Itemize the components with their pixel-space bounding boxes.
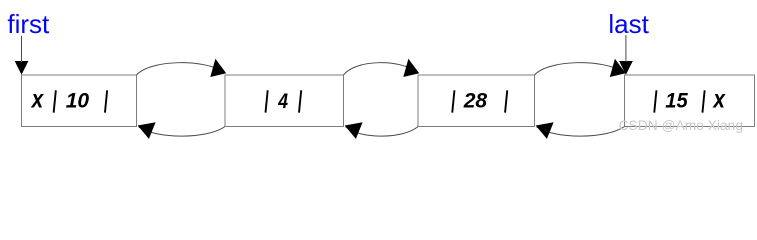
svg-text:first: first <box>7 9 50 39</box>
svg-text:CSDN @Amo Xiang: CSDN @Amo Xiang <box>619 118 743 133</box>
svg-text:last: last <box>608 9 649 39</box>
svg-text:x: x <box>712 85 726 113</box>
svg-text:10: 10 <box>66 89 89 113</box>
svg-text:4: 4 <box>277 89 288 113</box>
svg-text:28: 28 <box>463 89 487 113</box>
svg-text:x: x <box>30 85 44 113</box>
svg-text:15: 15 <box>665 89 688 113</box>
